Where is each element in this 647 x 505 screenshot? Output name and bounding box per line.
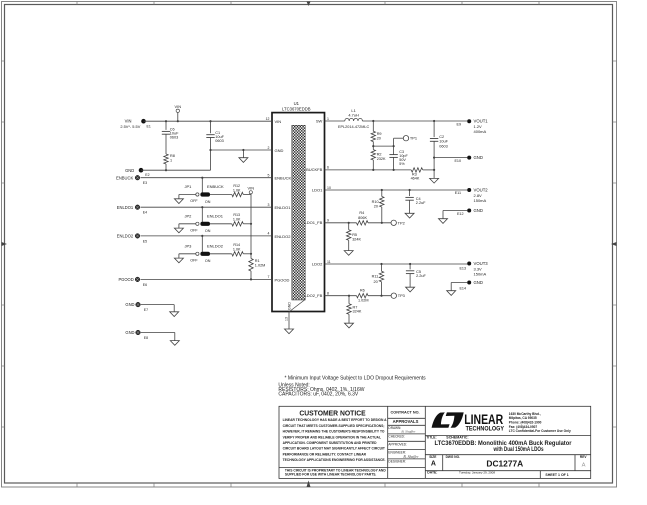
svg-text:DESIGNER:: DESIGNER: bbox=[388, 459, 406, 463]
svg-text:A: A bbox=[582, 462, 586, 468]
svg-text:CUSTOMER NOTICE: CUSTOMER NOTICE bbox=[299, 408, 365, 417]
svg-text:324K: 324K bbox=[353, 310, 362, 314]
svg-text:GND: GND bbox=[125, 330, 134, 335]
svg-text:E6: E6 bbox=[143, 283, 147, 287]
ground at U1 pin 13 bbox=[285, 329, 294, 334]
svg-text:R12: R12 bbox=[233, 184, 240, 188]
svg-text:DATE:: DATE: bbox=[427, 471, 437, 475]
svg-text:E14: E14 bbox=[459, 286, 466, 290]
svg-text:ON: ON bbox=[205, 229, 211, 233]
ground at E7 bbox=[170, 312, 179, 317]
wire ENLDO2 stub to JP3 bbox=[201, 235, 203, 237]
terminal E14 GND bbox=[467, 281, 471, 285]
svg-text:2.2uF: 2.2uF bbox=[416, 201, 426, 205]
svg-text:E12: E12 bbox=[457, 212, 464, 216]
svg-text:Tuesday, January 29, 2008: Tuesday, January 29, 2008 bbox=[459, 471, 495, 475]
svg-text:U1: U1 bbox=[294, 101, 300, 106]
svg-text:E4: E4 bbox=[143, 211, 147, 215]
ground at JP2 OFF bbox=[174, 228, 183, 233]
svg-text:PGOOD: PGOOD bbox=[118, 277, 133, 282]
svg-text:CIRCUIT BOARD LAYOUT MAY SIGNI: CIRCUIT BOARD LAYOUT MAY SIGNIFICANTLY A… bbox=[283, 447, 385, 451]
svg-text:2.2uF: 2.2uF bbox=[416, 274, 426, 278]
svg-text:9: 9 bbox=[327, 219, 329, 223]
wire SW/VOUT1 net bbox=[362, 120, 467, 122]
U1 pad-to-GND diagonal bbox=[290, 300, 305, 312]
svg-text:TP3: TP3 bbox=[398, 293, 405, 298]
svg-text:ON: ON bbox=[205, 259, 211, 263]
svg-text:GND: GND bbox=[474, 155, 483, 160]
svg-text:1.02M: 1.02M bbox=[255, 264, 266, 268]
svg-text:150mA: 150mA bbox=[474, 272, 487, 277]
wire ENLDO2 net bbox=[141, 235, 273, 237]
svg-text:E3: E3 bbox=[143, 181, 147, 185]
svg-text:TECHNOLOGY APPLICATIONS ENGINE: TECHNOLOGY APPLICATIONS ENGINEERING FOR … bbox=[283, 458, 386, 462]
svg-text:VIN: VIN bbox=[125, 118, 132, 123]
svg-text:1: 1 bbox=[327, 117, 329, 121]
resistor R10 bbox=[381, 190, 383, 197]
svg-text:R1: R1 bbox=[255, 259, 260, 263]
svg-text:ENBUCK: ENBUCK bbox=[207, 184, 224, 189]
svg-text:DRAWN:: DRAWN: bbox=[388, 426, 401, 430]
svg-text:HOWEVER, IT REMAINS THE CUSTOM: HOWEVER, IT REMAINS THE CUSTOMER'S RESPO… bbox=[283, 430, 385, 434]
wire ENLDO1 stub to JP2 bbox=[201, 206, 203, 208]
ground at JP1 OFF bbox=[174, 199, 183, 204]
svg-text:0603: 0603 bbox=[439, 144, 447, 148]
svg-text:APPLICATION. COMPONENT SUBSTIT: APPLICATION. COMPONENT SUBSTITUTION AND … bbox=[283, 441, 378, 445]
wire ENLDO1 net bbox=[141, 206, 273, 208]
svg-text:CIRCUIT THAT MEETS CUSTOMER-SU: CIRCUIT THAT MEETS CUSTOMER-SUPPLIED SPE… bbox=[283, 424, 385, 428]
test point TP2 bbox=[391, 220, 396, 225]
terminal E13 VOUT3 bbox=[467, 262, 471, 266]
svg-text:4: 4 bbox=[268, 232, 270, 236]
svg-text:R13: R13 bbox=[233, 213, 240, 217]
svg-text:TECHNOLOGY: TECHNOLOGY bbox=[466, 425, 504, 432]
resistor R13 bbox=[210, 223, 232, 225]
ground below C2 bbox=[430, 178, 439, 183]
resistor R8 bbox=[164, 154, 168, 164]
svg-text:E1: E1 bbox=[147, 124, 151, 128]
svg-text:PGOOD: PGOOD bbox=[275, 277, 290, 282]
svg-text:ENBUCK: ENBUCK bbox=[116, 175, 133, 180]
svg-text:E10: E10 bbox=[454, 159, 461, 163]
svg-text:5: 5 bbox=[268, 174, 270, 178]
resistor R6 bbox=[357, 294, 369, 298]
JP1 OFF position wire to ground bbox=[179, 194, 196, 196]
svg-text:20: 20 bbox=[377, 136, 381, 140]
svg-text:1.0K: 1.0K bbox=[233, 218, 241, 222]
wire LDO2/VOUT3 net bbox=[325, 263, 468, 265]
svg-text:GND: GND bbox=[125, 302, 134, 307]
resistor R4 bbox=[357, 221, 369, 225]
svg-text:GND: GND bbox=[474, 208, 483, 213]
svg-text:ENLDO1: ENLDO1 bbox=[275, 205, 292, 210]
svg-text:LDO1: LDO1 bbox=[312, 187, 323, 192]
node rail/R13 junction bbox=[250, 223, 252, 225]
svg-text:6: 6 bbox=[327, 166, 329, 170]
svg-text:SCHEMATIC:: SCHEMATIC: bbox=[446, 436, 468, 440]
node VIN stub junction bbox=[177, 120, 179, 122]
wire VIN pull-up rail bbox=[250, 194, 252, 254]
svg-text:DC1277A: DC1277A bbox=[486, 458, 523, 468]
svg-text:LDO2: LDO2 bbox=[312, 261, 323, 266]
svg-text:12: 12 bbox=[266, 117, 270, 121]
wire BUCKFB net bbox=[325, 169, 412, 171]
svg-text:TITLE:: TITLE: bbox=[426, 436, 436, 440]
wire E2 to C1 bottom bbox=[141, 169, 211, 171]
capacitor C6 bbox=[165, 120, 167, 122]
svg-text:TP1: TP1 bbox=[410, 136, 417, 141]
svg-text:OFF: OFF bbox=[190, 258, 198, 262]
JP2 OFF position wire to ground bbox=[179, 223, 196, 225]
svg-text:ENBUCK: ENBUCK bbox=[275, 176, 292, 181]
wire PGOOD net bbox=[141, 278, 273, 280]
svg-text:E13: E13 bbox=[459, 266, 466, 270]
svg-text:OFF: OFF bbox=[190, 228, 198, 232]
wire VIN net E1 to U1 pin 12 bbox=[144, 120, 273, 122]
capacitor C1 bbox=[209, 120, 211, 122]
svg-text:with Dual 150mA LDOs: with Dual 150mA LDOs bbox=[493, 446, 544, 453]
svg-text:232K: 232K bbox=[377, 157, 386, 161]
resistor R7 bbox=[348, 296, 350, 304]
svg-text:E7: E7 bbox=[144, 308, 148, 312]
wire E12 to ground bbox=[443, 210, 467, 212]
terminal E11 VOUT2 bbox=[467, 188, 471, 192]
svg-text:10: 10 bbox=[327, 186, 331, 190]
svg-text:SIZE: SIZE bbox=[429, 455, 436, 459]
svg-text:VIN: VIN bbox=[275, 119, 282, 124]
svg-text:R6: R6 bbox=[360, 289, 365, 293]
svg-text:GND: GND bbox=[288, 302, 292, 310]
svg-text:ENLDO2: ENLDO2 bbox=[117, 234, 134, 239]
svg-text:1.0K: 1.0K bbox=[233, 248, 241, 252]
test point TP3 bbox=[391, 293, 396, 298]
svg-text:7: 7 bbox=[268, 275, 270, 279]
resistor R11 bbox=[381, 264, 383, 271]
svg-text:* Minimum Input Voltage Subjec: * Minimum Input Voltage Subject to LDO D… bbox=[285, 375, 427, 381]
wire R9/R2 junction to C3/TP1 bbox=[373, 145, 393, 147]
svg-text:LTC Confidential-For Customer: LTC Confidential-For Customer Use Only bbox=[509, 429, 571, 433]
svg-text:5%: 5% bbox=[399, 162, 405, 166]
svg-text:0603: 0603 bbox=[215, 139, 223, 143]
svg-text:VIN: VIN bbox=[248, 185, 255, 190]
resistor R12 bbox=[210, 194, 232, 196]
svg-text:ENLDO2: ENLDO2 bbox=[275, 234, 292, 239]
svg-text:4.7uH: 4.7uH bbox=[348, 112, 359, 117]
svg-text:VOUT2: VOUT2 bbox=[474, 188, 489, 193]
Linear Technology logo bbox=[432, 412, 464, 427]
svg-text:R5: R5 bbox=[352, 233, 357, 237]
resistor R5 bbox=[348, 223, 350, 230]
svg-text:R10: R10 bbox=[372, 200, 379, 204]
svg-text:SUPPLIED FOR USE WITH LINEAR T: SUPPLIED FOR USE WITH LINEAR TECHNOLOGY … bbox=[285, 473, 377, 477]
wire ENBUCK stub to JP1 bbox=[201, 177, 203, 179]
svg-text:VIN: VIN bbox=[175, 104, 182, 109]
terminal E9 VOUT1 bbox=[467, 119, 471, 123]
svg-text:ON: ON bbox=[205, 200, 211, 204]
test point TP1 bbox=[393, 138, 395, 146]
svg-text:BUCKFB: BUCKFB bbox=[306, 167, 323, 172]
svg-text:400mA: 400mA bbox=[474, 129, 487, 134]
wire E10 GND bbox=[434, 157, 467, 159]
svg-text:VERIFY PROPER AND RELIABLE OPE: VERIFY PROPER AND RELIABLE OPERATION IN … bbox=[283, 435, 381, 439]
svg-text:ENLDO1: ENLDO1 bbox=[117, 205, 134, 210]
capacitor C4 bbox=[409, 190, 411, 196]
inductor L1 4.7uH bbox=[325, 120, 345, 122]
svg-text:11: 11 bbox=[327, 260, 331, 264]
svg-text:CONTRACT NO.: CONTRACT NO. bbox=[391, 410, 420, 414]
svg-text:DWG NO.: DWG NO. bbox=[446, 455, 460, 459]
capacitor C3 bbox=[393, 146, 395, 155]
svg-text:JP1: JP1 bbox=[185, 184, 193, 189]
svg-text:464K: 464K bbox=[411, 177, 420, 181]
svg-text:8: 8 bbox=[327, 292, 329, 296]
wire LDO1_FB net bbox=[325, 222, 357, 224]
wire E14 to ground bbox=[451, 282, 467, 284]
svg-text:324K: 324K bbox=[352, 238, 361, 242]
svg-text:CHECKED:: CHECKED: bbox=[388, 434, 405, 438]
svg-text:GND: GND bbox=[125, 168, 134, 173]
svg-text:R7: R7 bbox=[353, 305, 358, 309]
ground symbol near U1 pin2 bbox=[239, 158, 248, 163]
wire ENBUCK net bbox=[141, 177, 273, 179]
JP3 OFF position wire to ground bbox=[179, 253, 196, 255]
ground at JP3 OFF bbox=[174, 258, 183, 263]
svg-text:E8: E8 bbox=[144, 336, 148, 340]
wire GND net to U1 pin 2 bbox=[211, 149, 273, 151]
svg-text:VOUT1: VOUT1 bbox=[474, 119, 489, 124]
svg-text:LDO1_FB: LDO1_FB bbox=[305, 220, 323, 225]
wire LDO2_FB net bbox=[325, 295, 357, 297]
svg-text:SW: SW bbox=[316, 118, 323, 123]
svg-text:PERFORMANCE OR RELIABILITY. C: PERFORMANCE OR RELIABILITY. CONTACT LINE… bbox=[283, 452, 367, 456]
svg-text:20: 20 bbox=[374, 205, 378, 209]
svg-text:E5: E5 bbox=[143, 239, 147, 243]
svg-text:JP3: JP3 bbox=[185, 243, 193, 248]
capacitor C5 bbox=[409, 264, 411, 269]
terminal E12 GND bbox=[467, 209, 471, 213]
wire LDO1/VOUT2 net bbox=[325, 189, 468, 191]
svg-text:OFF: OFF bbox=[190, 199, 198, 203]
svg-text:APPROVED:: APPROVED: bbox=[388, 442, 407, 446]
border centering arrows bbox=[307, 2, 311, 7]
svg-text:REV: REV bbox=[580, 455, 587, 459]
svg-text:VOUT3: VOUT3 bbox=[474, 261, 489, 266]
resistor R1 bbox=[250, 254, 252, 259]
svg-text:APPROVALS: APPROVALS bbox=[393, 419, 419, 424]
title block frame bbox=[279, 406, 591, 478]
resistor R14 bbox=[210, 253, 232, 255]
svg-text:SHEET 1 OF 1: SHEET 1 OF 1 bbox=[545, 473, 568, 477]
svg-text:20: 20 bbox=[373, 280, 377, 284]
svg-text:1.02M: 1.02M bbox=[358, 299, 369, 303]
svg-text:A: A bbox=[431, 461, 436, 468]
wire U1 pin13 to ground bbox=[288, 312, 290, 330]
svg-text:R4: R4 bbox=[359, 211, 364, 215]
ground at E8 bbox=[170, 341, 179, 346]
svg-text:13: 13 bbox=[285, 317, 289, 321]
ground below C5 bbox=[406, 287, 415, 292]
svg-text:E9: E9 bbox=[456, 123, 461, 127]
ground below C4 bbox=[405, 213, 414, 218]
svg-text:LDO2_FB: LDO2_FB bbox=[305, 293, 323, 298]
svg-text:1: 1 bbox=[170, 158, 172, 162]
node rail/R14/R1 junction bbox=[250, 253, 252, 255]
svg-text:3: 3 bbox=[268, 203, 270, 207]
svg-text:E11: E11 bbox=[455, 191, 461, 195]
svg-text:JP2: JP2 bbox=[185, 213, 193, 218]
svg-text:LTC3670EDDB: LTC3670EDDB bbox=[282, 106, 311, 111]
svg-text:EPL2014-472MLC: EPL2014-472MLC bbox=[338, 125, 369, 129]
svg-text:TP2: TP2 bbox=[398, 220, 405, 225]
svg-text:R11: R11 bbox=[372, 275, 379, 279]
ground below R5 bbox=[344, 251, 353, 256]
ground at E14 bbox=[447, 291, 456, 296]
svg-text:GND: GND bbox=[474, 280, 483, 285]
svg-text:2: 2 bbox=[268, 146, 270, 150]
svg-text:ENLDO2: ENLDO2 bbox=[207, 243, 224, 248]
ground at E12 bbox=[439, 219, 448, 224]
svg-text:B. Shaffer: B. Shaffer bbox=[401, 430, 416, 434]
capacitor C2 bbox=[433, 121, 435, 137]
svg-text:0603: 0603 bbox=[170, 136, 178, 140]
svg-text:2.5V*- 5.5V: 2.5V*- 5.5V bbox=[120, 124, 140, 129]
svg-text:LINEAR TECHNOLOGY HAS MADE A B: LINEAR TECHNOLOGY HAS MADE A BEST EFFORT… bbox=[283, 418, 388, 422]
resistor R3 bbox=[411, 168, 423, 172]
IC U1 LTC3670EDDB bbox=[272, 101, 325, 312]
svg-text:GND: GND bbox=[275, 148, 284, 153]
wire E7 to ground bbox=[141, 304, 174, 306]
svg-text:806K: 806K bbox=[358, 216, 367, 220]
resistor R2 bbox=[372, 146, 374, 150]
wire E8 to ground bbox=[141, 332, 175, 334]
svg-text:R14: R14 bbox=[233, 243, 240, 247]
node GND/C1 junction bbox=[209, 149, 211, 151]
resistor R9 bbox=[372, 121, 374, 131]
svg-text:CAPACITORS: uF, 0402, 20%, 6.3: CAPACITORS: uF, 0402, 20%, 6.3V bbox=[278, 392, 359, 398]
svg-text:ENLDO1: ENLDO1 bbox=[207, 213, 224, 218]
terminal E10 GND bbox=[467, 156, 471, 160]
svg-text:E2: E2 bbox=[145, 173, 149, 177]
svg-text:10uF: 10uF bbox=[439, 139, 448, 143]
ground below R7 bbox=[345, 323, 354, 328]
svg-text:150mA: 150mA bbox=[474, 198, 487, 203]
ground stub near U1 pin 2 bbox=[242, 149, 244, 151]
svg-text:1.0K: 1.0K bbox=[233, 188, 241, 192]
